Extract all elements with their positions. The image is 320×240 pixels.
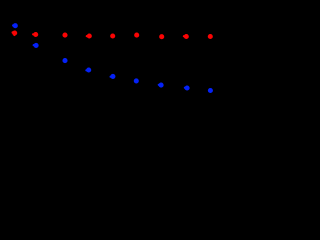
blue series point B4 <box>85 68 91 72</box>
blue series point B7 <box>158 83 164 87</box>
red series point R3 <box>63 33 67 37</box>
red series point R8 <box>183 34 189 38</box>
blue series point B9 <box>208 88 212 92</box>
blue series point B1 <box>12 24 18 28</box>
red series point R6 <box>135 33 139 37</box>
blue series point B8 <box>184 86 190 90</box>
red series point R9 <box>208 34 212 38</box>
blue series point B6 <box>134 79 138 83</box>
red series point R2 <box>32 32 38 36</box>
blue series point B3 <box>63 58 67 62</box>
blue series point B5 <box>110 74 116 78</box>
red series point R7 <box>160 35 164 39</box>
red series point R1 <box>12 31 17 36</box>
scatter chart: red series (upper, flat) and blue series (descending curve) on black background <box>0 0 235 151</box>
blue series point B2 <box>33 43 39 47</box>
red series point R5 <box>111 34 115 38</box>
red series point R4 <box>86 34 92 38</box>
